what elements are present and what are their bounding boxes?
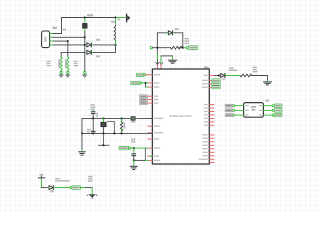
connector X2 body [244,103,264,118]
vertical link right [144,148,146,160]
wire resistor to junction [179,47,183,49]
wire IC top pin2 to ground [160,56,162,63]
junction R5 on rail [121,118,123,120]
diode D2 [85,51,86,53]
net label trio left of IC [140,95,148,105]
wire pin2 row [54,36,85,38]
label D3 [175,28,179,30]
wire green stub left pin [150,155,153,157]
net label left pin1 [225,104,233,107]
resistor R2 [67,57,69,71]
wire flag to IC pin [131,147,148,149]
label below supply arrow wire [117,19,120,21]
wire green stub to supply arrow [116,17,126,19]
junction C3 bottom [133,160,135,162]
junction Q1 lower [103,133,105,135]
junction inductor bottom [115,44,117,46]
ground R1 [59,74,64,78]
IC right pin stubs [209,76,214,163]
wire pin3 row [54,40,68,42]
resistor R1 [60,57,62,71]
wire R1 top corner row [61,52,85,57]
label text vertical pair [131,138,135,143]
ground LED1 [264,82,272,85]
node green stub [81,150,83,151]
label R4 three lines [253,67,258,73]
wire rail lower [82,132,152,134]
label X2 refdes [266,100,269,102]
ground top center [168,60,176,63]
IC left pin stubs [148,75,153,161]
fuse F1 [84,18,86,22]
node circle R1 bottom [60,71,62,73]
value text R2 vertical [65,60,67,68]
wire junction down to second pin [145,83,147,87]
net label flag CLK [119,146,129,149]
label LED2 two lines [55,178,70,182]
net label right pin1 [274,104,282,107]
resistor R3 horizontal [171,46,182,49]
wire left column down to gnd [81,118,83,150]
svg-text:ATMEGA8-16AU: ATMEGA8-16AU [169,114,192,118]
crystal Q1 [102,118,104,121]
wire diode to right leg down [175,33,183,48]
node circles left pins [232,105,234,107]
supply arrow symbol P1 [126,14,128,22]
node circles right pins [272,105,274,107]
net label flag 3.3V [131,81,140,84]
label IC1 refdes [204,66,209,68]
node circle row left end [150,47,152,49]
net label left pin2 [225,109,233,112]
wire from LED2 label to gnd corner [80,187,85,189]
series element on rail [130,117,137,119]
inductor L1 [115,18,117,25]
net label right pin3 [274,113,282,116]
net label MOSI right of IC [212,86,220,89]
wire C3 to ground [133,160,135,165]
resistor R4 [240,74,251,77]
wire LED1 to R4 [227,75,240,77]
wire up-over loop left leg [157,33,167,48]
wire D2 to inductor node [94,45,116,53]
wire pin4 row [54,44,86,46]
wire IC pin to LED1 [214,75,220,77]
net label left pin3 [225,114,233,117]
net label right pin2 [274,109,282,112]
X2 right pin wires [263,106,272,115]
junction pin2 row [84,36,86,38]
bracket around crystal [107,121,114,133]
junction C1 on rail [92,118,94,120]
label D2 [96,55,100,57]
ground left column [79,152,86,155]
LED2 diode VD1 [49,186,53,190]
capacitor C3 [133,148,135,153]
capacitor C2 [92,118,94,130]
wire pin3 to R2 [67,41,69,57]
value text R2 [74,61,78,67]
junction right leg [182,47,184,49]
wire fuse to ground column [84,32,86,72]
label L1 [111,21,115,23]
junction R5 lower rail [121,133,123,135]
junction on flag wire [133,147,135,149]
wire IC top pin1 vertical [156,49,158,65]
value text R1 vertical [58,60,60,68]
wire pin1 to 5V rail [54,18,62,34]
green segment on pin1 column [156,54,158,60]
label LED1 two lines [229,67,238,71]
gnd flag top-left [40,176,42,178]
wire R4 to gnd [251,76,267,81]
wire RESET to pin (red) [146,74,148,76]
junction C2 on lower rail [92,133,94,135]
junction Q1 on rail [103,118,105,120]
label below series element [131,121,135,123]
value text R1 [47,61,51,67]
wire gnd down to LED row [40,179,42,188]
ground arrow [89,194,96,198]
net label MISO right of IC [212,82,220,85]
IC left pin names [154,74,164,161]
ground R2 [66,74,71,78]
IC U1 body [152,69,209,164]
capacitor C1 [92,110,94,111]
junction left column rail lower [81,133,83,135]
label R5 [124,122,126,128]
wire green stub to flag [184,47,187,49]
junction on rail at fuse [84,17,86,19]
net label SCK right of IC [212,79,220,82]
IC top pin stubs (red) [157,65,161,69]
connector X1 [42,31,50,48]
junction at 157.4 [157,47,159,49]
crystal case pin to bar [102,134,104,145]
label GND text [40,174,44,176]
value text three lines [88,176,93,182]
diode D1 [85,44,86,46]
node circle gnd column bottom [84,71,86,73]
ground gnd column [83,74,88,78]
label VD1 [50,191,54,193]
value text C2 [87,129,91,133]
wire flag to junction [142,82,148,84]
value text C1 three lines [90,104,95,110]
wire row 47.7 left part [153,47,171,49]
diode D3 [167,32,168,34]
node circle at flag [70,187,72,189]
wire rail upper [82,117,152,119]
node circle at flag [186,47,188,49]
label X1 [52,27,57,29]
X2 inner texts [245,105,262,116]
net label flag PWR [72,186,80,189]
resistor R5 [120,118,122,132]
IC right pin names [199,75,208,160]
label 5V [63,29,66,31]
X2 left pin wires [235,106,244,115]
small gnd mark pin2 [160,63,163,65]
net label flag right [188,46,197,50]
node circle R2 bottom [67,71,69,73]
ground under C3 [130,166,137,169]
small gnd mark pin1 [156,63,159,65]
wire LED2 to flag [55,187,70,189]
junction [145,82,147,84]
wire C3 row to IC pin [134,159,146,161]
net label RESET flag [136,73,143,76]
label D1 [96,39,100,41]
wire to LED2 [41,187,48,189]
junction pin3 row [67,40,69,42]
junction pin4 row [84,44,86,46]
LED1 diode [221,74,225,78]
junction [218,75,220,77]
label VUSB on rail [87,14,93,16]
wire top rail [62,17,116,19]
junction on rail at inductor [115,17,117,19]
value text block R3/D3 [184,38,189,44]
wire D1 to inductor node [94,44,116,46]
pin stubs of X1 [50,34,54,45]
